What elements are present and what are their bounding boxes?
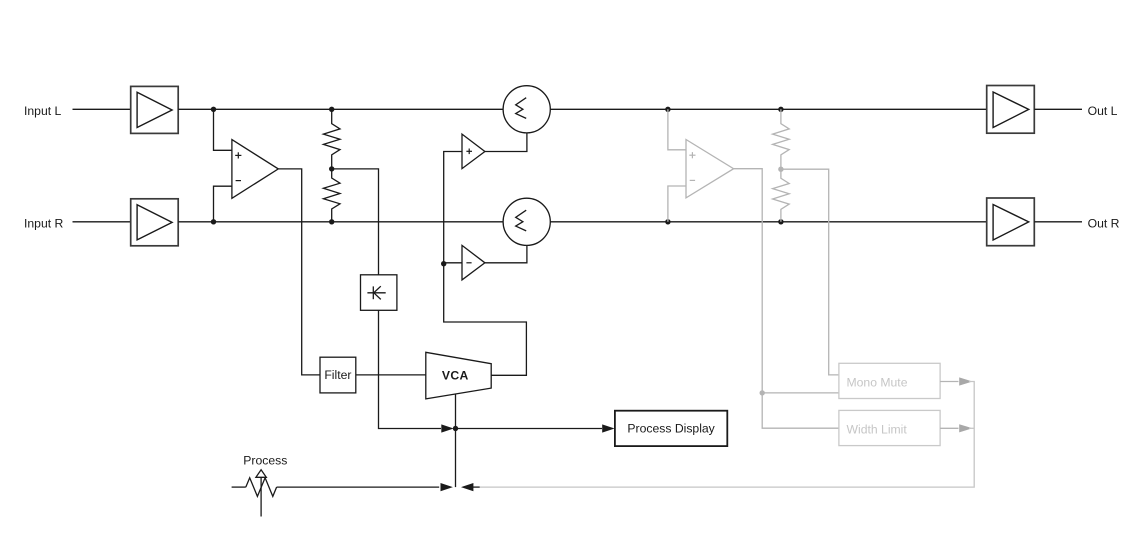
node resistor center tap xyxy=(329,166,334,171)
wire VCA output to gain amps xyxy=(444,264,527,376)
Mono Mute box xyxy=(839,363,940,398)
svg-text:Out L: Out L xyxy=(1088,104,1118,118)
node L sum tap xyxy=(211,107,216,112)
wire tap to op-amp U1 + input xyxy=(214,109,232,150)
grey wire Width Limit output xyxy=(940,427,958,429)
Filter box xyxy=(320,357,356,393)
node control xyxy=(453,426,458,431)
svg-text:Out R: Out R xyxy=(1088,217,1120,231)
resistor R2 (center to R) xyxy=(323,169,340,222)
svg-text:Input L: Input L xyxy=(24,104,61,118)
feedback stub black xyxy=(473,486,480,488)
Process Display box xyxy=(615,411,727,446)
grey wire branch to Width Limit xyxy=(762,393,839,428)
grey node out resistor center xyxy=(778,167,783,172)
VCA block xyxy=(426,352,491,399)
wire R line buffer to multiplier xyxy=(178,221,503,223)
svg-text:Filter: Filter xyxy=(324,368,351,382)
wire Out L lead xyxy=(1034,108,1082,110)
wire R line multiplier to output buffer xyxy=(550,221,986,223)
grey wire L tap to U2 + input xyxy=(668,109,686,150)
wire -1 amp to R multiplier xyxy=(485,245,527,262)
gain amp +1 xyxy=(462,134,485,169)
grey arrow Width Limit output xyxy=(959,424,972,432)
grey node U2 branch xyxy=(760,390,765,395)
node R out resistor tap xyxy=(778,219,783,224)
grey wire Mono Mute output xyxy=(940,381,958,383)
process pot resistor xyxy=(246,478,277,497)
gain amp -1 xyxy=(462,245,485,280)
Width Limit box xyxy=(839,410,940,445)
wire center tap to sidechain diode xyxy=(332,169,379,275)
VCA control stem xyxy=(455,394,457,487)
grey feedback bus down xyxy=(480,382,974,488)
wire Input L lead xyxy=(73,108,131,110)
node L resistor tap xyxy=(329,107,334,112)
wire +1 amp to L multiplier xyxy=(485,133,527,152)
wire diode to control node xyxy=(379,310,442,428)
node L out resistor tap xyxy=(778,107,783,112)
wire split to - gain amp xyxy=(444,262,462,264)
wire U1 output to Filter xyxy=(278,169,320,375)
wire control to Process Display xyxy=(456,428,603,430)
node R diff tap xyxy=(211,219,216,224)
arrow into control node xyxy=(441,424,453,432)
wire split to + gain amp xyxy=(444,152,462,264)
wire Input R lead xyxy=(73,221,131,223)
wire L line buffer to multiplier xyxy=(178,108,503,110)
arrow into Process Display xyxy=(602,424,614,432)
process pot wiper arrow xyxy=(256,470,266,517)
grey wire center tap to Mono Mute top input xyxy=(781,169,839,375)
wire Filter to VCA xyxy=(356,374,426,376)
node R mono tap xyxy=(665,219,670,224)
svg-text:Width Limit: Width Limit xyxy=(847,423,908,437)
wire pot to process sum node xyxy=(277,486,440,488)
grey arrow Mono Mute output xyxy=(959,377,972,385)
grey resistor R4 xyxy=(773,169,790,222)
multiplier M2 (R) xyxy=(503,198,550,245)
grey op-amp U2 mono detector xyxy=(686,140,734,198)
resistor R1 (L to center) xyxy=(323,109,340,169)
node R resistor tap xyxy=(329,219,334,224)
output buffer amp R xyxy=(987,198,1035,246)
wire L line multiplier to output buffer xyxy=(550,108,986,110)
op-amp U1 difference amp xyxy=(232,140,278,199)
grey wire R tap to U2 - input xyxy=(668,186,686,222)
input buffer amp L xyxy=(131,86,179,133)
sidechain rectifier box D1 xyxy=(361,275,397,311)
arrow feedback into sum node xyxy=(461,483,473,491)
process pot stub left xyxy=(232,486,246,488)
grey resistor R3 xyxy=(773,109,790,169)
wire tap to op-amp U1 - input xyxy=(214,186,232,222)
svg-text:Mono Mute: Mono Mute xyxy=(847,376,908,390)
multiplier M1 (L) xyxy=(503,86,550,133)
input buffer amp R xyxy=(131,199,179,246)
svg-text:Input R: Input R xyxy=(24,217,63,231)
svg-text:Process Display: Process Display xyxy=(627,422,715,436)
svg-text:Process: Process xyxy=(243,453,287,467)
node gain amp split xyxy=(441,261,446,266)
node L mono tap xyxy=(665,107,670,112)
wire Out R lead xyxy=(1034,221,1082,223)
arrow pot into sum node xyxy=(441,483,453,491)
svg-text:VCA: VCA xyxy=(442,369,469,383)
grey feedback stub from width limit arrow xyxy=(969,427,974,429)
grey wire branch to Mono Mute xyxy=(762,392,839,394)
grey wire U2 output down xyxy=(734,169,763,393)
output buffer amp L xyxy=(987,86,1035,134)
